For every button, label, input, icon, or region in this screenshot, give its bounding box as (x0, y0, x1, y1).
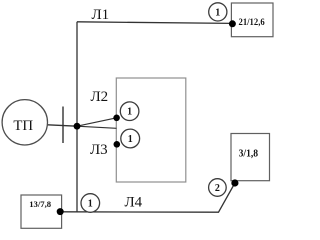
svg-text:Л1: Л1 (92, 7, 110, 23)
wire Л2 fan (77, 118, 117, 126)
svg-text:1: 1 (128, 134, 133, 145)
counter circle 2 (209, 179, 227, 197)
svg-text:13/7,8: 13/7,8 (29, 199, 51, 209)
svg-text:3/1,8: 3/1,8 (239, 148, 259, 159)
counter circle 1 of Л4 (81, 194, 100, 213)
load box 13/7,8 (21, 195, 62, 228)
node dot Л3 on cabinet edge (114, 141, 121, 148)
wire ТП to bus (48, 125, 78, 126)
distribution cabinet rectangle (116, 78, 186, 182)
node dot Л2 on cabinet edge (113, 115, 120, 122)
node dot at box 21/12,6 (229, 20, 236, 27)
wire Л4 (60, 183, 235, 212)
wire Л1 horizontal (77, 22, 232, 24)
wire Л1 vertical bus (76, 22, 78, 213)
junction node on bus (74, 123, 81, 130)
svg-text:2: 2 (215, 183, 220, 194)
svg-text:1: 1 (88, 199, 93, 210)
svg-text:ТП: ТП (13, 118, 33, 134)
svg-text:Л2: Л2 (91, 89, 109, 105)
wire Л3 fan (77, 126, 117, 128)
counter circle 1 of Л2 (120, 102, 139, 121)
svg-text:Л3: Л3 (90, 142, 108, 158)
node dot at box 3/1,8 (231, 179, 238, 186)
node dot at box 13/7,8 (57, 208, 64, 215)
load box 3/1,8 (231, 134, 270, 181)
svg-text:21/12,6: 21/12,6 (239, 17, 265, 28)
load box 21/12,6 (231, 3, 273, 37)
svg-text:Л4: Л4 (125, 195, 143, 211)
counter circle 1 of Л3 (121, 129, 140, 148)
svg-text:1: 1 (215, 7, 220, 18)
counter circle 1 of Л1 (209, 3, 227, 21)
svg-text:1: 1 (127, 107, 132, 118)
transformer substation ТП (2, 100, 47, 145)
bus tick (62, 107, 64, 144)
